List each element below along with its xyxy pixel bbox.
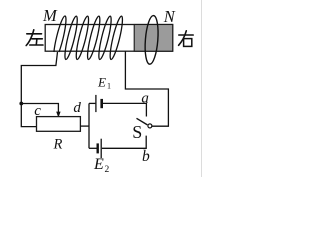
svg-text:E: E	[97, 74, 106, 89]
node junction dot	[19, 102, 23, 106]
battery E1 long plate	[95, 95, 97, 112]
battery E1 short thick plate	[100, 99, 103, 108]
svg-text:R: R	[53, 137, 63, 153]
svg-text:S: S	[132, 122, 142, 142]
battery E2 long plate	[100, 139, 102, 158]
label 左 (drawn strokes)	[26, 30, 43, 46]
wire: terminal b stub down to E2	[102, 136, 146, 149]
wire: E1 left lead	[89, 102, 95, 104]
coil M turn 1 (bottom open, merges into lead)	[54, 16, 66, 52]
wire: left bus between E1 and E2	[88, 103, 90, 148]
svg-text:E: E	[93, 156, 104, 173]
coil M turn 3	[74, 15, 91, 60]
battery E2 short thick plate	[96, 143, 98, 153]
svg-text:d: d	[73, 100, 81, 116]
coil M turn 4	[85, 15, 102, 60]
svg-text:c: c	[34, 103, 41, 119]
wire: R right to bus	[80, 125, 89, 127]
svg-text:N: N	[163, 7, 176, 26]
svg-text:2: 2	[105, 165, 110, 175]
rheostat R box	[37, 117, 81, 132]
switch S blade	[137, 118, 148, 125]
faint scan artifact line at right edge	[201, 0, 203, 177]
svg-text:M: M	[42, 6, 58, 25]
svg-text:b: b	[142, 148, 150, 165]
switch S pivot circle	[148, 124, 152, 128]
ring N around core	[144, 15, 160, 65]
svg-text:a: a	[141, 91, 149, 107]
wire: switch right, up and over to coil right lead	[125, 51, 168, 126]
iron core right section (gray)	[134, 25, 173, 52]
wire: E2 left lead to bus	[89, 147, 97, 149]
label 右 (drawn strokes)	[179, 31, 194, 47]
wire: branch to rheostat slider	[21, 104, 58, 113]
slider arrowhead	[56, 112, 60, 118]
wire: E1 right to terminal a	[103, 103, 146, 116]
coil M turn 5	[97, 15, 114, 60]
coil M turn 2	[63, 15, 80, 60]
core bar (solenoid former)	[45, 25, 173, 52]
svg-text:1: 1	[107, 81, 111, 90]
wire: coil left lead down-left to bus	[21, 52, 57, 127]
coil M turn 6	[108, 15, 125, 60]
